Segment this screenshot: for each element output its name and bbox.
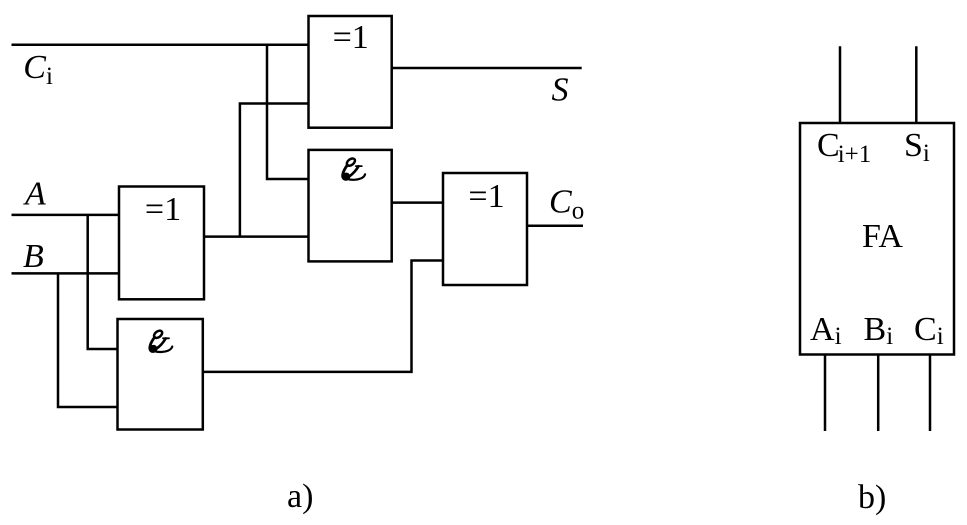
- svg-text:b): b): [858, 479, 886, 516]
- svg-text:FA: FA: [862, 218, 903, 255]
- xor gate XOR1 box: [119, 187, 204, 300]
- svg-text:Ai: Ai: [810, 311, 842, 350]
- wire A branch down to AND2 input: [88, 215, 118, 349]
- and gate AND2 box: [118, 319, 203, 430]
- wire Ci+1 output of FA: [839, 46, 842, 123]
- label & of AND2: [150, 329, 172, 352]
- svg-text:=1: =1: [333, 19, 369, 56]
- wire XOR1 output to AND1 input (node P): [204, 235, 309, 238]
- wire node P riser to XOR2 input: [240, 104, 309, 237]
- xor gate XOR3 box (carry stage): [443, 173, 527, 285]
- FA block box: [800, 123, 954, 355]
- svg-text:A: A: [23, 176, 46, 213]
- wire Si output of FA: [915, 46, 918, 123]
- svg-text:S: S: [552, 72, 569, 109]
- xor gate XOR2 box (sum stage): [309, 16, 392, 128]
- svg-text:Co: Co: [549, 184, 584, 225]
- wire Ai input of FA: [824, 355, 827, 432]
- wire Ci input of FA: [929, 355, 932, 432]
- label & of AND1: [343, 157, 365, 180]
- wire A input: [12, 214, 120, 217]
- wire Ci input: [12, 43, 309, 46]
- wire AND1 output to XOR3 input: [392, 201, 443, 204]
- wire B input: [12, 272, 120, 275]
- svg-text:Ci+1: Ci+1: [817, 127, 871, 168]
- svg-text:a): a): [287, 478, 313, 515]
- svg-text:=1: =1: [468, 178, 504, 215]
- svg-text:Ci: Ci: [914, 311, 944, 350]
- wire S output: [392, 67, 582, 70]
- svg-text:Si: Si: [904, 127, 930, 167]
- svg-text:Ci: Ci: [23, 49, 53, 90]
- and gate AND1 box: [309, 150, 392, 262]
- svg-text:B: B: [23, 238, 44, 275]
- wire Co output: [527, 225, 583, 228]
- wire Bi input of FA: [877, 355, 880, 432]
- svg-text:=1: =1: [145, 191, 181, 228]
- wire AND2 output to XOR3 input: [203, 261, 443, 372]
- wire Ci branch down to AND1 input: [267, 45, 309, 179]
- wire B branch down to AND2 input: [58, 273, 118, 407]
- svg-text:Bi: Bi: [864, 311, 894, 350]
